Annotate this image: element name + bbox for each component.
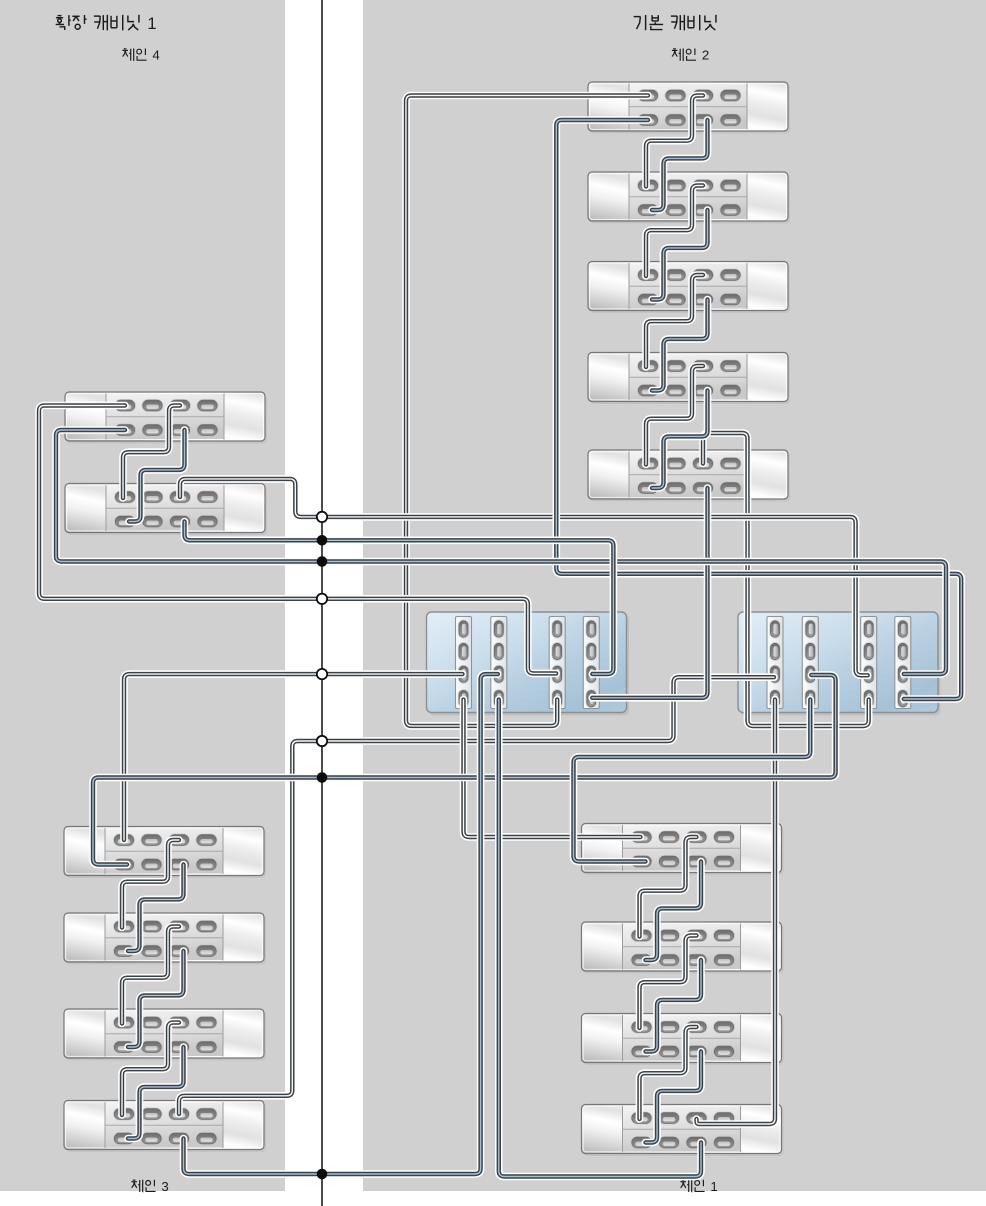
crossover marker (open circle) at divider y=674.1 bbox=[317, 669, 327, 679]
wire B4.IOM-B p3 to controller1 slot2 port4 (blue SAS cable) bbox=[499, 700, 701, 1177]
wire C2.IOM-A p3 to controller2 slot3 port3 (dark SAS cable) bbox=[180, 479, 868, 675]
wire A4.IOM-A p3 to A5.IOM-A p1 (dark SAS cable) bbox=[646, 366, 703, 465]
disk shelf A5 (base cabinet chain 2, shelf 5) bbox=[588, 450, 790, 502]
crossover marker (open circle) at divider y=516.9 bbox=[317, 512, 327, 522]
wire D4.IOM-A p3 to controller2 slot1 port3 (dark SAS cable) bbox=[179, 677, 774, 1114]
wire D3.IOM-B p3 to D4.IOM-B p1 (blue SAS cable) bbox=[128, 1047, 184, 1139]
wire D1.IOM-B p3 to D2.IOM-B p1 (blue SAS cable) bbox=[128, 865, 184, 952]
label "기본 캐비닛" bbox=[634, 15, 716, 31]
disk shelf A2 (base cabinet chain 2, shelf 2) bbox=[588, 172, 790, 224]
wire A3.IOM-A p3 to A4.IOM-A p1 (dark SAS cable) bbox=[646, 275, 703, 367]
disk shelf C1 (expansion cabinet chain 4, shelf 1) bbox=[65, 392, 267, 444]
wire A1.IOM-A p1 to controller1 slot3 port4 (dark SAS cable) bbox=[406, 96, 648, 726]
svg-text:3: 3 bbox=[161, 1179, 168, 1194]
wire D1.IOM-A p3 to D2.IOM-A p1 (dark SAS cable) bbox=[122, 840, 179, 928]
label "체인 2" bbox=[672, 48, 696, 60]
svg-text:2: 2 bbox=[702, 48, 709, 63]
wire A3.IOM-B p3 to A4.IOM-B p1 (blue SAS cable) bbox=[652, 300, 708, 391]
disk shelf A4 (base cabinet chain 2, shelf 4) bbox=[588, 353, 790, 405]
wire C1.IOM-A p3 to C2.IOM-A p1 (dark SAS cable) bbox=[123, 406, 180, 499]
label "체인 4" bbox=[122, 48, 146, 60]
label "확장 캐비닛 1" bbox=[56, 15, 139, 31]
wire D1.IOM-A p1 to controller1 slot1 port3 (dark SAS cable) bbox=[124, 674, 463, 840]
wire A1.IOM-B p3 to A2.IOM-B p1 (blue SAS cable) bbox=[652, 120, 708, 210]
disk shelf A1 (base cabinet chain 2, shelf 1) bbox=[588, 82, 790, 134]
disk shelf B2 (base cabinet chain 1, shelf 2) bbox=[582, 922, 784, 974]
disk shelf B1 (base cabinet chain 1, shelf 1) bbox=[582, 824, 784, 876]
disk shelf C2 (expansion cabinet chain 4, shelf 2) bbox=[65, 484, 267, 536]
disk shelf B4 (base cabinet chain 1, shelf 4) bbox=[582, 1105, 784, 1157]
wire A5.IOM-B p3 to controller1 slot4 port4 (blue SAS cable) bbox=[592, 488, 707, 698]
wire A1.IOM-A p3 to A2.IOM-A p1 (dark SAS cable) bbox=[646, 96, 703, 187]
cabinet divider line bbox=[321, 0, 323, 1206]
wire controller2 slot1 port4 to B4.IOM-A p3 (dark SAS cable) bbox=[697, 700, 776, 1124]
crossover marker (open circle) at divider y=598.8 bbox=[317, 594, 327, 604]
wire A4.IOM-B p3 to A5.IOM-B p1 (blue SAS cable) bbox=[652, 391, 708, 489]
wire B2.IOM-A p3 to B3.IOM-A p1 (dark SAS cable) bbox=[640, 936, 697, 1029]
wire A2.IOM-A p3 to A3.IOM-A p1 (dark SAS cable) bbox=[646, 186, 703, 277]
expansion cabinet panel (left, grey) bbox=[0, 0, 285, 1191]
wire B2.IOM-B p3 to B3.IOM-B p1 (blue SAS cable) bbox=[646, 960, 702, 1052]
label "체인 3" bbox=[131, 1180, 155, 1192]
junction marker (filled dot) at divider y=777.5 bbox=[317, 772, 328, 783]
wire A1.IOM-B p1 to controller2 slot4 port4 (blue SAS cable) bbox=[556, 120, 961, 699]
wire C1.IOM-B p3 to C2.IOM-B p1 (blue SAS cable) bbox=[129, 430, 185, 522]
controller 2 (right) (ZS5-4) bbox=[738, 612, 941, 716]
wire B1.IOM-B p3 to B2.IOM-B p1 (blue SAS cable) bbox=[646, 862, 702, 961]
svg-text:4: 4 bbox=[152, 48, 159, 63]
disk shelf D4 (expansion cabinet chain 3, shelf 4) bbox=[64, 1101, 266, 1153]
wire controller2 slot2 port4 to B1.IOM-B p1 (blue SAS cable) bbox=[574, 700, 811, 862]
controller 1 (left) (ZS5-4) bbox=[427, 612, 630, 716]
wire controller1 slot1 port4 to B1.IOM-A p1 (dark SAS cable) bbox=[464, 700, 641, 837]
wire B3.IOM-A p3 to B4.IOM-A p1 (dark SAS cable) bbox=[640, 1027, 697, 1119]
wire A5.IOM-A p3 to controller2 slot3 port4 (dark SAS cable) bbox=[703, 433, 869, 726]
base cabinet panel (right, grey) bbox=[363, 0, 986, 1191]
junction marker (filled dot) at divider y=1174 bbox=[317, 1169, 328, 1180]
wire B1.IOM-A p3 to B2.IOM-A p1 (dark SAS cable) bbox=[640, 837, 697, 937]
disk shelf D1 (expansion cabinet chain 3, shelf 1) bbox=[64, 827, 266, 879]
crossover marker (open circle) at divider y=741 bbox=[317, 736, 327, 746]
disk shelf A3 (base cabinet chain 2, shelf 3) bbox=[588, 262, 790, 314]
junction marker (filled dot) at divider y=561.5 bbox=[317, 556, 328, 567]
wire D1.IOM-B p1 to controller2 slot2 port3 (blue SAS cable) bbox=[93, 675, 836, 865]
wire B3.IOM-B p3 to B4.IOM-B p1 (blue SAS cable) bbox=[646, 1052, 702, 1143]
disk shelf D2 (expansion cabinet chain 3, shelf 2) bbox=[64, 913, 266, 965]
wire D4.IOM-B p3 to controller1 slot2 port3 (blue SAS cable) bbox=[184, 674, 498, 1174]
disk shelf D3 (expansion cabinet chain 3, shelf 3) bbox=[64, 1009, 266, 1061]
junction marker (filled dot) at divider y=540.3 bbox=[317, 535, 328, 546]
disk shelf B3 (base cabinet chain 1, shelf 3) bbox=[582, 1014, 784, 1066]
label "체인 1" bbox=[680, 1180, 704, 1192]
svg-text:1: 1 bbox=[710, 1179, 717, 1194]
wire C1.IOM-A p1 to controller1 slot3 port3 (dark SAS cable) bbox=[39, 406, 556, 674]
wire C1.IOM-B p1 to controller2 slot4 port3 (blue SAS cable) bbox=[56, 430, 946, 674]
wire D2.IOM-B p3 to D3.IOM-B p1 (blue SAS cable) bbox=[128, 951, 184, 1047]
svg-text:1: 1 bbox=[147, 14, 156, 33]
wire A2.IOM-B p3 to A3.IOM-B p1 (blue SAS cable) bbox=[652, 210, 708, 300]
wire D2.IOM-A p3 to D3.IOM-A p1 (dark SAS cable) bbox=[122, 927, 179, 1024]
wire D3.IOM-A p3 to D4.IOM-A p1 (dark SAS cable) bbox=[122, 1023, 179, 1116]
wire C2.IOM-B p3 to controller1 slot4 port3 (blue SAS cable) bbox=[185, 522, 614, 675]
